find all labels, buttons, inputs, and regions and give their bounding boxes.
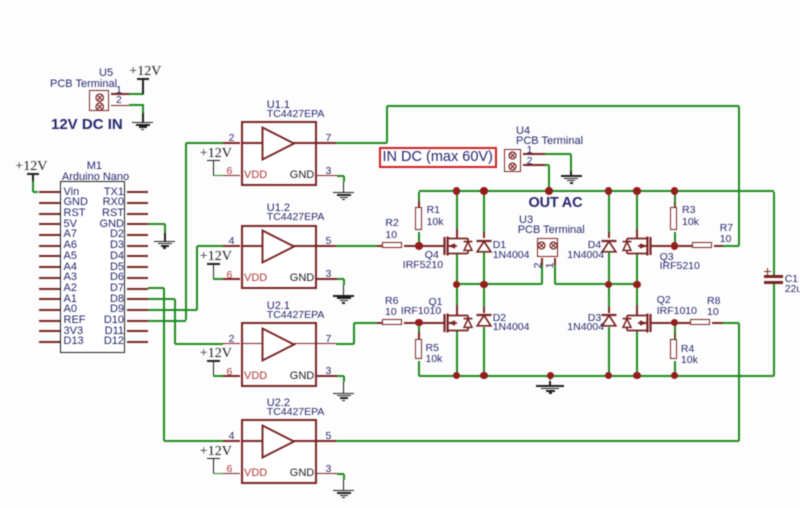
ground (Arduino GND) xyxy=(0,0,1,1)
label VDD (U2.2) xyxy=(0,0,1,1)
pin 3 GND stub (U1.1) xyxy=(0,0,1,1)
label TC4427EPA (U1.1) xyxy=(0,0,1,1)
label U2.1 xyxy=(0,0,1,1)
junction xyxy=(0,0,1,1)
pin 5 output stub (U1.2) xyxy=(0,0,1,1)
junction xyxy=(0,0,1,1)
junction xyxy=(0,0,1,1)
wire D9 to U1.2 input xyxy=(0,0,1,1)
wire U1.1 output to R7 (top route) xyxy=(0,0,1,1)
pin number 1 (U3) xyxy=(0,0,1,1)
junction xyxy=(0,0,1,1)
transistor Q4 IRF5210 xyxy=(0,0,1,1)
power +12V (U2.1) xyxy=(0,0,1,1)
junction xyxy=(0,0,1,1)
ground (U4) xyxy=(0,0,1,1)
junction xyxy=(0,0,1,1)
junction xyxy=(0,0,1,1)
resistor R1 xyxy=(0,0,1,1)
wire U1.2 output to R2 xyxy=(0,0,1,1)
junction xyxy=(0,0,1,1)
pin 4 input stub (U1.2) xyxy=(0,0,1,1)
junction xyxy=(0,0,1,1)
resistor R6 xyxy=(0,0,1,1)
pin 3 GND stub (U2.1) xyxy=(0,0,1,1)
wire top rail (+DC) xyxy=(0,0,1,1)
ground (U2.2) xyxy=(0,0,1,1)
transistor Q3 IRF5210 xyxy=(0,0,1,1)
wire bottom rail (DC return) xyxy=(0,0,1,1)
wire U3 pin1 to phase B xyxy=(0,0,1,1)
pin 6 VDD stub (U1.1) xyxy=(0,0,1,1)
label VDD (U1.2) xyxy=(0,0,1,1)
label Q2 xyxy=(0,0,1,1)
label R8 10 xyxy=(0,0,1,1)
junction xyxy=(0,0,1,1)
op-amp driver U1.2 TC4427EPA xyxy=(0,0,1,1)
pin 2 input stub (U2.1) xyxy=(0,0,1,1)
resistor R2 xyxy=(0,0,1,1)
label R1 10k xyxy=(0,0,1,1)
label D3 1N4004 xyxy=(0,0,1,1)
label R6 10 xyxy=(0,0,1,1)
pin number 1 xyxy=(0,0,1,1)
label PCB Terminal (U3) xyxy=(0,0,1,1)
junction xyxy=(0,0,1,1)
junction xyxy=(0,0,1,1)
junction xyxy=(0,0,1,1)
label VDD (U1.1) xyxy=(0,0,1,1)
ground (bottom rail) xyxy=(0,0,1,1)
label IN DC (max 60V) red box xyxy=(0,0,1,1)
label PCB Terminal xyxy=(0,0,1,1)
label VDD (U2.1) xyxy=(0,0,1,1)
junction xyxy=(0,0,1,1)
resistor R4 xyxy=(0,0,1,1)
Arduino M1 pin stubs xyxy=(0,0,1,1)
label GND (U1.2) xyxy=(0,0,1,1)
label PCB Terminal (U4) xyxy=(0,0,1,1)
pin 6 VDD stub (U1.2) xyxy=(0,0,1,1)
label C1 22u xyxy=(0,0,1,1)
ground (U5) xyxy=(0,0,1,1)
label TC4427EPA (U1.2) xyxy=(0,0,1,1)
pin 3 GND stub (U1.2) xyxy=(0,0,1,1)
junction xyxy=(0,0,1,1)
diode D1 1N4004 xyxy=(0,0,1,1)
pin 4 input stub (U2.2) xyxy=(0,0,1,1)
label M1 xyxy=(0,0,1,1)
Arduino M1 right pin names xyxy=(0,0,1,1)
label Arduino Nano xyxy=(0,0,1,1)
wire D8 to U2.1 input xyxy=(0,0,1,1)
label GND (U2.1) xyxy=(0,0,1,1)
label U1.2 xyxy=(0,0,1,1)
ground (U1.1) xyxy=(0,0,1,1)
pin number 2 (U4) xyxy=(0,0,1,1)
power +12V (U1.1) xyxy=(0,0,1,1)
label D2 1N4004 xyxy=(0,0,1,1)
pin 7 output stub (U2.1) xyxy=(0,0,1,1)
label OUT AC xyxy=(0,0,1,1)
label U2.2 xyxy=(0,0,1,1)
label R4 10k xyxy=(0,0,1,1)
label U4 xyxy=(0,0,1,1)
wire U2.2 output to R8 (bottom route) xyxy=(0,0,1,1)
pin 6 VDD stub (U2.2) xyxy=(0,0,1,1)
connector U4 PCB Terminal xyxy=(0,0,1,1)
pin number 2 (U3) xyxy=(0,0,1,1)
label IRF1010 (Q1) xyxy=(0,0,1,1)
wire mid rail right (phase B) xyxy=(0,0,1,1)
wire U3 pin2 to phase A xyxy=(0,0,1,1)
wire D7 to U2.2 input xyxy=(0,0,1,1)
label TC4427EPA (U2.2) xyxy=(0,0,1,1)
wire mid rail left (phase A) xyxy=(0,0,1,1)
diode D4 1N4004 xyxy=(0,0,1,1)
label U3 xyxy=(0,0,1,1)
junction xyxy=(0,0,1,1)
pin 6 VDD stub (U2.1) xyxy=(0,0,1,1)
label R7 10 xyxy=(0,0,1,1)
label Q3 xyxy=(0,0,1,1)
ground (U2.1) xyxy=(0,0,1,1)
pin 7 output stub (U1.1) xyxy=(0,0,1,1)
label IRF1010 (Q2) xyxy=(0,0,1,1)
pin number 2 xyxy=(0,0,1,1)
junction xyxy=(0,0,1,1)
wire U4 pin2 to top rail xyxy=(0,0,1,1)
label U5 xyxy=(0,0,1,1)
pin 5 output stub (U2.2) xyxy=(0,0,1,1)
label GND (U1.1) xyxy=(0,0,1,1)
label IRF5210 (Q4) xyxy=(0,0,1,1)
junction xyxy=(0,0,1,1)
power +12V (Arduino Vin) xyxy=(0,0,1,1)
pin 2 input stub (U1.1) xyxy=(0,0,1,1)
power +12V (U1.2) xyxy=(0,0,1,1)
label D4 1N4004 xyxy=(0,0,1,1)
junction xyxy=(0,0,1,1)
wire D10 to U1.1 input xyxy=(0,0,1,1)
transistor Q1 IRF1010 xyxy=(0,0,1,1)
IC M1 Arduino Nano box xyxy=(0,0,1,1)
wire U2.1 output to R6 xyxy=(0,0,1,1)
wire xyxy=(129,104,144,106)
label D1 1N4004 xyxy=(0,0,1,1)
wire xyxy=(129,93,144,95)
connector U5 PCB Terminal xyxy=(0,0,1,1)
Arduino M1 left pin names xyxy=(0,0,1,1)
resistor R8 xyxy=(0,0,1,1)
pin 3 GND stub (U2.2) xyxy=(0,0,1,1)
label 12V DC IN xyxy=(0,0,1,1)
power +12V (U2.2) xyxy=(0,0,1,1)
pin number 1 (U4) xyxy=(0,0,1,1)
resistor R3 xyxy=(0,0,1,1)
label IRF5210 (Q3) xyxy=(0,0,1,1)
diode D3 1N4004 xyxy=(0,0,1,1)
op-amp driver U1.1 TC4427EPA xyxy=(0,0,1,1)
label R2 10 xyxy=(0,0,1,1)
label U1.1 xyxy=(0,0,1,1)
power +12V (U5) xyxy=(0,0,1,1)
connector U3 PCB Terminal xyxy=(0,0,1,1)
resistor R5 xyxy=(0,0,1,1)
label R3 10k xyxy=(0,0,1,1)
label Q4 xyxy=(0,0,1,1)
op-amp driver U2.1 TC4427EPA xyxy=(0,0,1,1)
label GND (U2.2) xyxy=(0,0,1,1)
transistor Q2 IRF1010 xyxy=(0,0,1,1)
op-amp driver U2.2 TC4427EPA xyxy=(0,0,1,1)
junction xyxy=(0,0,1,1)
diode D2 1N4004 xyxy=(0,0,1,1)
ground (U1.2) xyxy=(0,0,1,1)
label R5 10k xyxy=(0,0,1,1)
capacitor C1 22u xyxy=(0,0,1,1)
resistor R7 xyxy=(0,0,1,1)
label TC4427EPA (U2.1) xyxy=(0,0,1,1)
label Q1 xyxy=(0,0,1,1)
